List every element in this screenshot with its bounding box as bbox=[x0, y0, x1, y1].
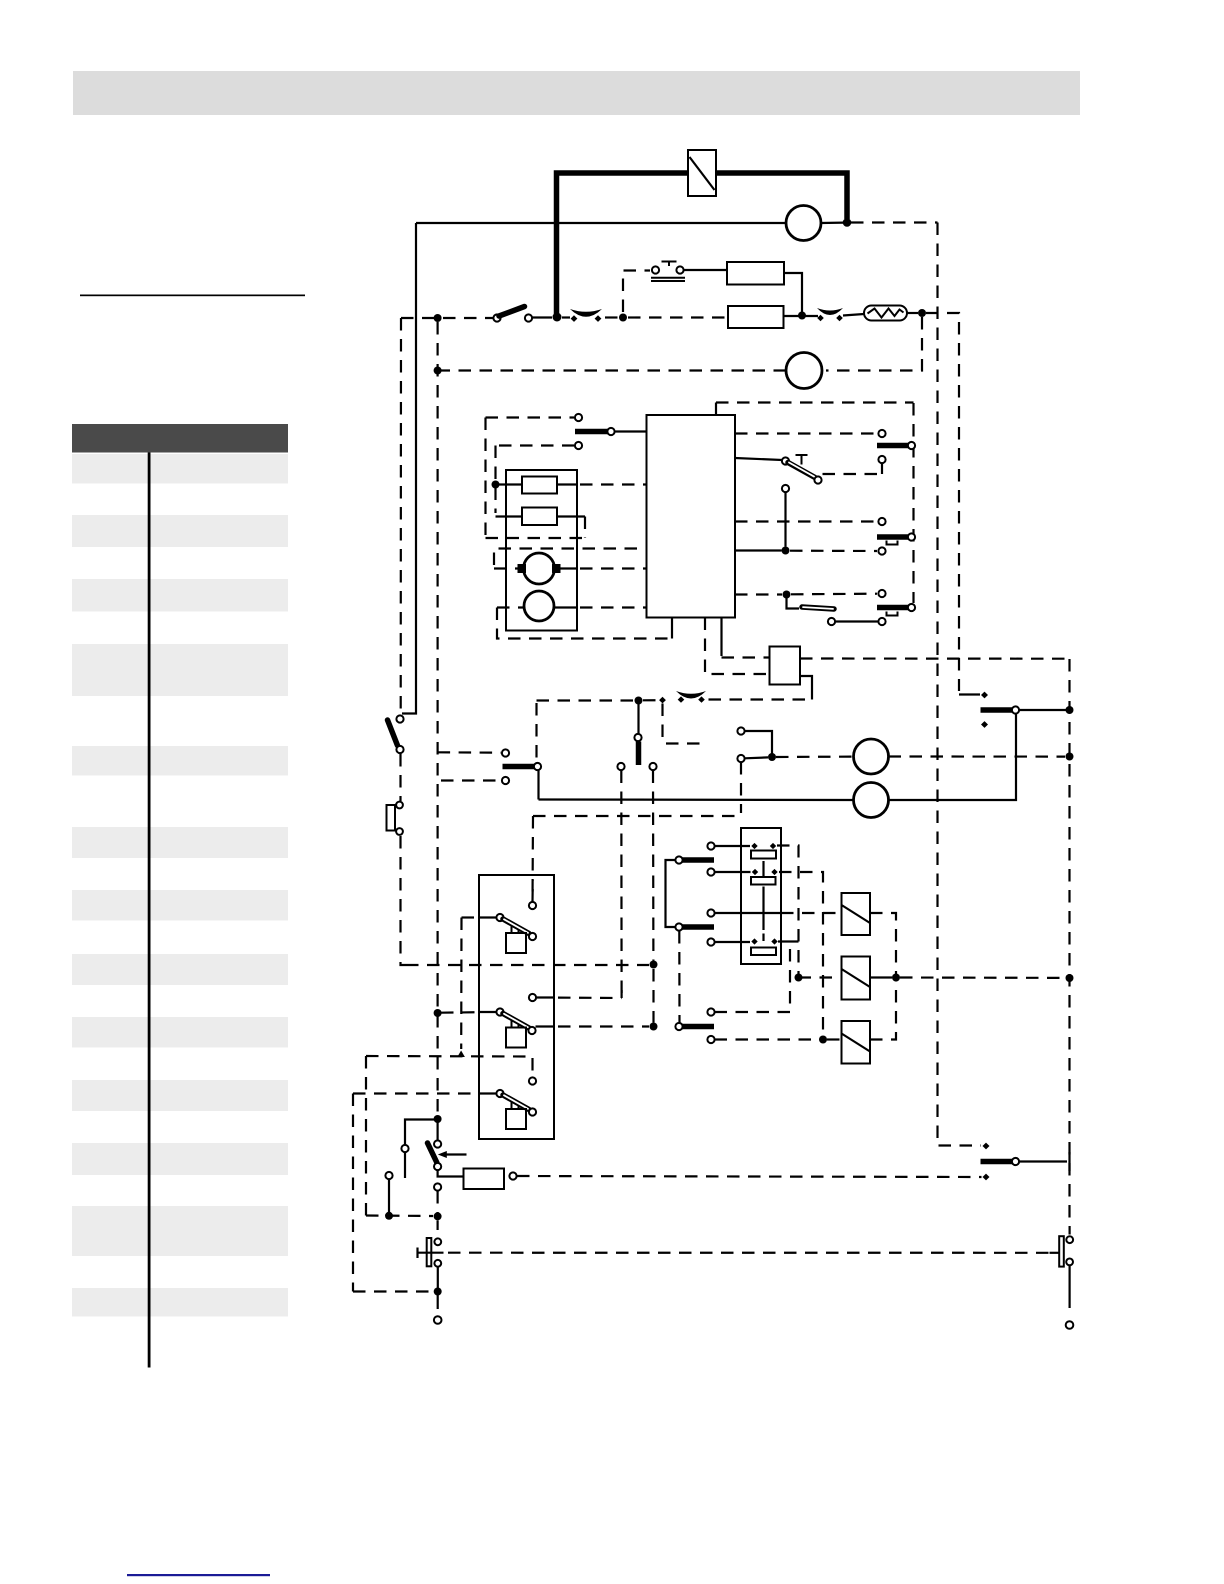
switch K2 contact bar bbox=[877, 533, 915, 544]
wire timer2 output bbox=[536, 1025, 650, 1027]
terminal lead right bbox=[1066, 1266, 1074, 1329]
wire M2 row bbox=[497, 606, 647, 608]
timer contact 1 top bbox=[529, 880, 536, 909]
thermostat TH2 bbox=[817, 308, 843, 321]
resistor R3 bbox=[522, 477, 557, 494]
wire S4 common to block bbox=[615, 430, 647, 432]
bus G vertical (right contact) bbox=[652, 771, 655, 961]
sidebar rule bbox=[80, 295, 305, 297]
wire block row3 right bbox=[735, 518, 886, 525]
selector diamonds row1 bbox=[751, 843, 776, 849]
wire K5 output bbox=[870, 913, 896, 974]
node R1/R2 output bbox=[798, 312, 806, 320]
resistor R1 bbox=[727, 262, 784, 285]
sidebar light row 4 bbox=[72, 644, 288, 696]
wire dashed to right bus N bbox=[851, 221, 938, 223]
sidebar light row 8 bbox=[72, 954, 288, 985]
wire lamp H2 left dashed bbox=[441, 369, 786, 371]
sidebar light row 13 bbox=[72, 1288, 288, 1317]
wire dashed box left leg bbox=[484, 418, 486, 539]
switch S7 changeover bbox=[502, 749, 541, 784]
wire node C drop bbox=[826, 317, 922, 371]
wire bus B to S7 upper bbox=[438, 751, 501, 754]
wire push-button to R1 bbox=[684, 269, 728, 271]
thermostat TH3 bbox=[676, 691, 706, 703]
wire selector row2 bbox=[715, 871, 751, 873]
sidebar light row 12 bbox=[72, 1206, 288, 1256]
wire S1 to node bbox=[533, 316, 553, 318]
sidebar light row 6 bbox=[72, 827, 288, 858]
node thick leg junction bbox=[553, 313, 562, 322]
wire bus A upper bbox=[399, 754, 401, 801]
wire TH2 to fuse F1 bbox=[843, 314, 864, 316]
footer blue rule bbox=[127, 1574, 270, 1576]
wire selector row4 right bbox=[778, 940, 799, 942]
bus F vertical (left contact) bbox=[620, 771, 622, 995]
wire timer sense dashed riser bbox=[740, 762, 742, 813]
contact row1 bbox=[878, 430, 885, 437]
node net1216 / bus B bbox=[434, 1212, 442, 1220]
wire S7 pivot drop bbox=[537, 771, 539, 800]
wire F1 to node C bbox=[907, 312, 918, 314]
wire lamp H4 feed solid bbox=[539, 798, 854, 801]
sidebar dark title bar bbox=[72, 424, 288, 453]
wire net 700 left drop bbox=[535, 703, 537, 762]
wire bus B to S7 lower bbox=[441, 779, 501, 781]
node bus B / timer2 bbox=[434, 1009, 442, 1017]
lamp H2 bbox=[786, 353, 822, 389]
wire net700 right to relay tab bbox=[709, 698, 809, 700]
resistor R2 bbox=[728, 306, 784, 328]
wire bus A lower bbox=[401, 836, 407, 965]
connector X1 left bbox=[418, 1220, 444, 1266]
wire to relay K5 bbox=[781, 912, 842, 914]
wire mains link dashed bbox=[448, 1252, 1049, 1254]
lamp H4 bbox=[854, 783, 889, 818]
wire K7 output bbox=[870, 981, 896, 1040]
bus K far left bbox=[352, 1094, 354, 1292]
timer contact 3 top bbox=[529, 1077, 536, 1084]
fuse F2 bbox=[387, 802, 403, 835]
node lamp H3 feed bbox=[768, 753, 776, 761]
heater unit box bbox=[506, 470, 577, 631]
switch S2 door contact bbox=[388, 715, 404, 753]
bus I vertical bbox=[460, 918, 462, 1050]
wire lamp H3 dashed left bbox=[776, 755, 854, 758]
lever flat contact bbox=[802, 607, 834, 609]
node bus H / S8 bbox=[1066, 706, 1074, 714]
wire dashed net 700 horizontal bbox=[537, 699, 635, 701]
sidebar light row 3 bbox=[72, 579, 288, 612]
control module A1 bbox=[647, 415, 736, 618]
switch S4 selector bbox=[575, 414, 615, 449]
node push-button branch bbox=[619, 314, 627, 322]
relay K7 bbox=[842, 1021, 871, 1064]
node heater branch bbox=[492, 481, 500, 489]
wire block bottom stub bbox=[671, 618, 673, 639]
terminal lead left bbox=[434, 1292, 442, 1324]
program selector block A2 bbox=[741, 828, 781, 964]
wire selector row1 bbox=[715, 845, 751, 847]
selector contact terminals bbox=[707, 842, 714, 945]
node bus H / lamp H3 bbox=[1066, 753, 1074, 761]
node net700 / SW-E lead bbox=[635, 697, 643, 705]
timer block A3 bbox=[479, 875, 554, 1139]
wire supply drop to door switch bbox=[402, 223, 416, 714]
wire lamp H1 to node bbox=[821, 222, 844, 225]
contact pair lamp H3 branch bbox=[737, 727, 772, 762]
wire branch up to push-button bbox=[623, 271, 650, 313]
actuation arrow bbox=[438, 1151, 467, 1158]
node C bbox=[918, 309, 926, 317]
wire S9 lower contact bbox=[715, 1038, 820, 1040]
wire selector row4 bbox=[715, 941, 751, 943]
switch bars selector common bbox=[666, 856, 715, 930]
wire neutral dashed rail bbox=[406, 964, 649, 966]
switch S5 start lever bbox=[782, 455, 822, 484]
relay K6 bbox=[842, 957, 871, 1000]
switch S8 right changeover bbox=[981, 692, 1020, 728]
wire bus A from main line bbox=[400, 318, 402, 715]
wire R3 row bbox=[496, 483, 647, 485]
wire K6 output bbox=[870, 976, 892, 978]
node bus B / lamp wire bbox=[434, 367, 442, 375]
motor M2 bbox=[524, 591, 554, 621]
wire net1291 dashed bbox=[353, 1290, 433, 1292]
wire stub into block top bbox=[715, 403, 717, 416]
wire R4 row bbox=[496, 517, 586, 539]
sidebar light row 7 bbox=[72, 890, 288, 921]
contact aux lower bbox=[385, 1172, 392, 1212]
lamp H1 bbox=[786, 206, 821, 241]
node main line / bus B bbox=[434, 314, 442, 322]
node neutral rail end bbox=[650, 961, 658, 969]
wire timer3 left dashed bbox=[353, 1092, 497, 1094]
wire K4 output dashed bbox=[800, 657, 1066, 659]
bus H vertical bbox=[1068, 659, 1070, 1222]
bus E vertical (right of block) bbox=[912, 403, 914, 603]
node relay K6 feed bbox=[795, 974, 803, 982]
wire dashed to selector contact a bbox=[486, 416, 575, 418]
wire dash to TH1 bbox=[562, 316, 570, 318]
resistor R4 bbox=[522, 508, 557, 526]
sidebar light row 10 bbox=[72, 1080, 288, 1111]
node bus B / branch bbox=[434, 1115, 442, 1123]
wire to SW-D pivot bbox=[666, 742, 704, 744]
sidebar light row 1 bbox=[72, 454, 288, 484]
wire dashed to selector contact b bbox=[499, 444, 574, 446]
node row4 bbox=[783, 591, 791, 599]
node net1291 bbox=[434, 1288, 442, 1296]
switch K1 contact bar bbox=[877, 442, 915, 449]
wire selector common drop bbox=[678, 931, 680, 1023]
relay coil K4 bbox=[770, 647, 801, 685]
header gray bar bbox=[73, 71, 1080, 115]
wire block row1 right bbox=[735, 432, 877, 434]
wire TH1 to node B2 bbox=[605, 316, 618, 318]
timer switch 1 bbox=[496, 914, 536, 953]
relay K5 bbox=[842, 893, 871, 935]
timer contact 2 top bbox=[529, 990, 622, 1001]
selector shaft bbox=[762, 861, 764, 941]
wire block mid row bbox=[735, 547, 886, 554]
node aux / net1216 bbox=[385, 1212, 393, 1220]
selector pad 2 bbox=[751, 877, 776, 885]
wire S5 output dashed bbox=[823, 456, 886, 474]
selector pad 1 bbox=[751, 851, 776, 859]
connector X2 right bbox=[1050, 1226, 1074, 1267]
node bus H / relays bbox=[1066, 974, 1074, 982]
wire block row4 right bbox=[735, 590, 886, 597]
wire relay node to bus H bbox=[900, 976, 1065, 979]
contact aux upper bbox=[401, 1145, 408, 1178]
wire S8 to bus H bbox=[1019, 709, 1066, 711]
lamp H3 bbox=[854, 739, 889, 774]
node relay K7 feed bbox=[819, 1036, 827, 1044]
thermostat TH1 bbox=[570, 309, 602, 322]
wire dashed top of control block bbox=[716, 401, 914, 403]
contact S5 lower bbox=[782, 485, 789, 547]
wire R1 output drop bbox=[784, 273, 802, 312]
wire dashed bottom rail of block bbox=[497, 608, 668, 639]
wire branch to aux contact bbox=[405, 1120, 438, 1145]
wire R5 output dashed bbox=[517, 1176, 982, 1177]
wire main line dashed left bbox=[401, 317, 493, 319]
wire timer1 left bbox=[462, 916, 497, 918]
wire net1216 dashed bbox=[366, 1214, 433, 1217]
wire block row2 right bbox=[735, 458, 782, 460]
wire main line to R2 bbox=[628, 316, 728, 318]
wire selector row1 right loop bbox=[777, 846, 799, 975]
sidebar light row 11 bbox=[72, 1143, 288, 1175]
wire bus D to contact bbox=[959, 693, 980, 695]
wire selector row2 right loop bbox=[779, 872, 823, 1036]
node bus I end bbox=[457, 1051, 465, 1058]
push-button S3 bbox=[651, 262, 685, 282]
timer switch 3 bbox=[496, 1090, 536, 1129]
wire node C to bus D bbox=[926, 313, 959, 691]
sidebar light row 2 bbox=[72, 515, 288, 547]
switch S11 changeover bbox=[981, 1143, 1070, 1181]
node diamond branch bbox=[659, 697, 666, 704]
sidebar light row 5 bbox=[72, 746, 288, 776]
thermal fuse F1 bbox=[864, 306, 907, 321]
switch K3 contact bar bbox=[877, 604, 915, 616]
resistor R5 bbox=[464, 1169, 517, 1190]
wire lamp H4 right bbox=[889, 714, 1017, 801]
switch S9 bottom bar bbox=[675, 1008, 714, 1043]
wire selector row3 bbox=[715, 912, 782, 914]
wire K4 feed b bbox=[722, 618, 770, 658]
selector diamonds row4 bbox=[751, 938, 777, 944]
sidebar light row 9 bbox=[72, 1017, 288, 1048]
wire net 1056 dashed bbox=[366, 1056, 533, 1077]
wire dashed stub bbox=[437, 1191, 439, 1213]
transformer T1 bbox=[688, 150, 716, 196]
contact below S10 bbox=[434, 1183, 441, 1190]
wire timer sense left drop bbox=[531, 816, 534, 901]
wire S9 upper contact loop bbox=[715, 945, 791, 1013]
wire X1 lower lead bbox=[437, 1268, 439, 1289]
bus B vertical bbox=[437, 322, 439, 1116]
node bus G / switch feed bbox=[650, 1023, 658, 1031]
wire dashed inner leg bbox=[494, 446, 496, 514]
wire to relay K7 bbox=[827, 1038, 842, 1040]
bus J left outer bbox=[365, 1056, 367, 1216]
wire R2 to TH2 bbox=[784, 315, 819, 317]
wire row5 contacts bbox=[828, 618, 886, 625]
wire row4 drop to lever bbox=[787, 595, 800, 609]
wire K4 feed a bbox=[705, 618, 770, 675]
wire M1 row bbox=[494, 567, 647, 569]
wire dashed motor feed bbox=[494, 549, 647, 566]
wire bus G lower bbox=[652, 969, 654, 1023]
wire lamp H3 right bbox=[889, 755, 1066, 757]
switch S10 main lever bbox=[428, 1122, 442, 1170]
wire timer sense horizontal bbox=[533, 815, 741, 817]
switch S1 mains bbox=[493, 307, 532, 322]
node mains/lamp junction bbox=[843, 218, 852, 227]
wire net700 mid dash bbox=[643, 699, 658, 701]
wire bus N vertical bbox=[938, 223, 982, 1146]
wire thin supply line bbox=[416, 222, 786, 224]
wire to relay K6 bbox=[799, 976, 842, 978]
wire thick mains right leg bbox=[716, 173, 847, 219]
wire S10 to resistor R5 bbox=[438, 1170, 464, 1177]
timer switch 2 bbox=[496, 1008, 535, 1047]
motor M1 bbox=[518, 553, 561, 584]
wire timer2 left dashed bbox=[441, 1011, 497, 1014]
wire thick mains left leg bbox=[557, 173, 689, 314]
sidebar vertical leader line bbox=[148, 453, 151, 1368]
wire branch down to SW-D bbox=[661, 704, 663, 741]
selector diamonds row2 bbox=[752, 869, 778, 875]
wire dashed box bottom bbox=[486, 537, 586, 539]
node relay outputs bbox=[892, 974, 900, 982]
wire relay coil bottom tab bbox=[800, 676, 812, 700]
selector pad 3 bbox=[751, 948, 776, 956]
node row mid bbox=[782, 547, 790, 555]
switch S6 hanging lever bbox=[617, 704, 656, 771]
